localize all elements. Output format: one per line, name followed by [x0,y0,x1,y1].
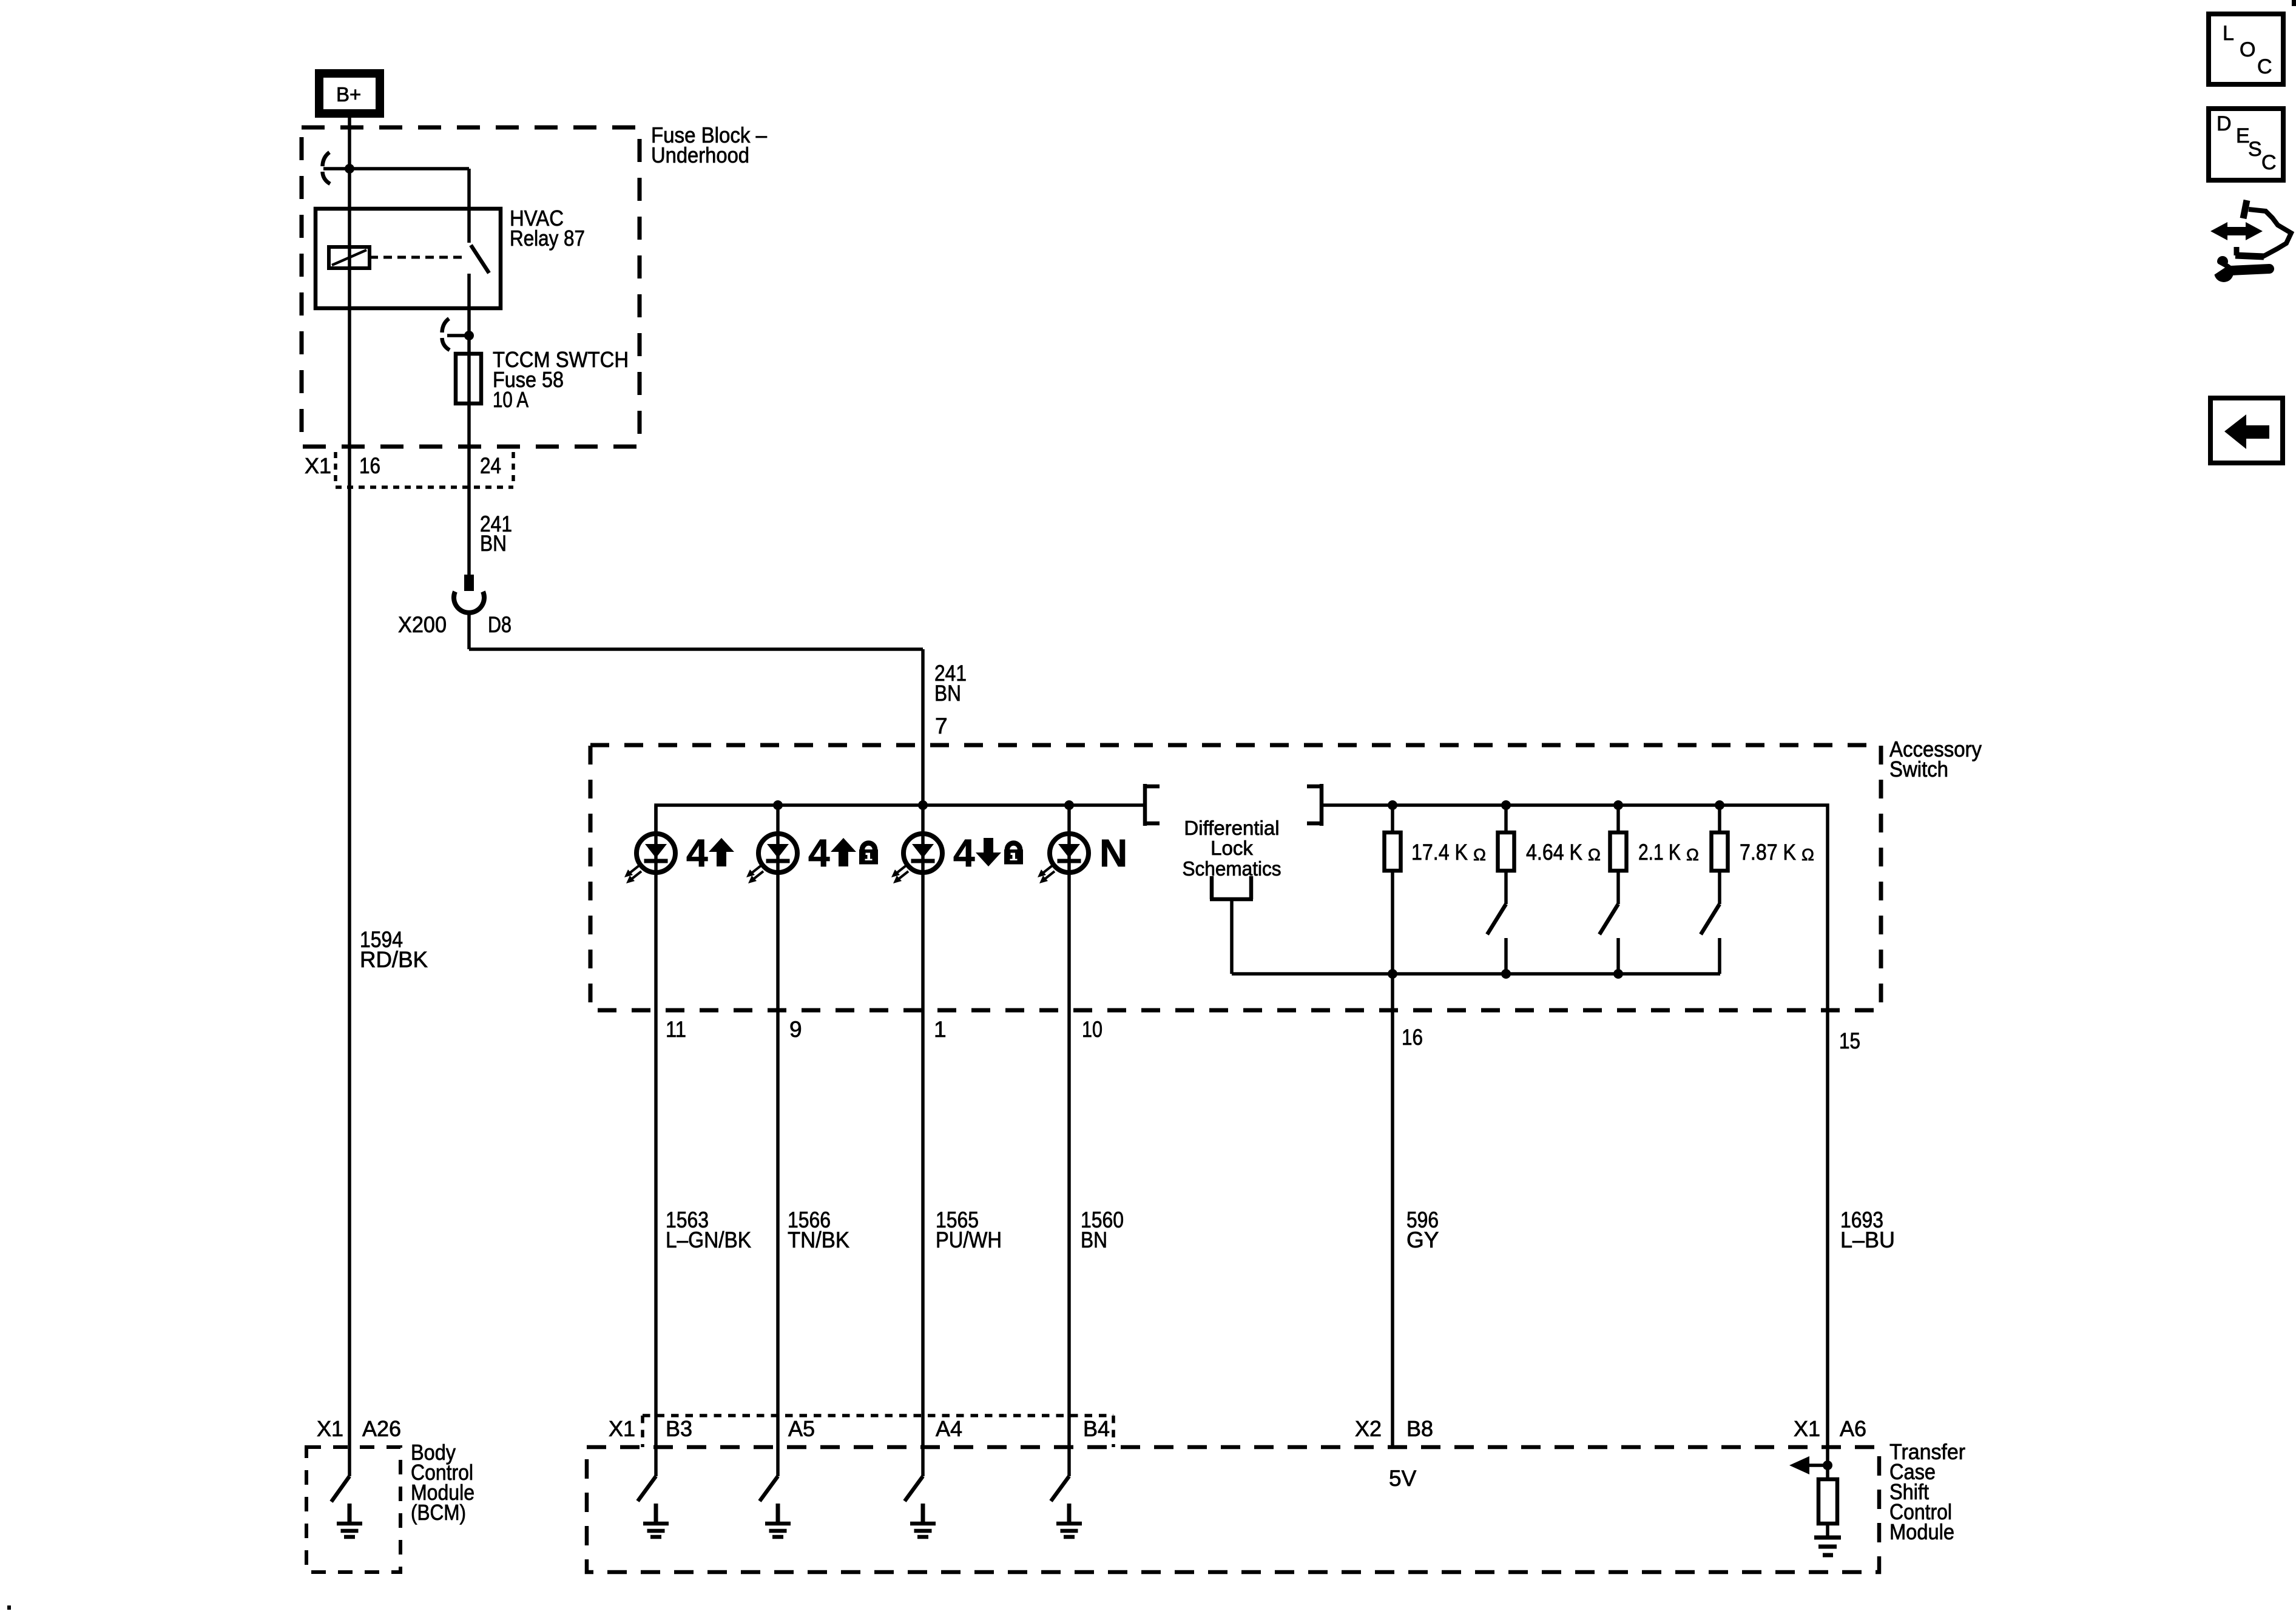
svg-text:11: 11 [666,1017,686,1042]
svg-text:4: 4 [953,831,975,875]
svg-text:X2: X2 [1355,1416,1382,1441]
svg-text:BN: BN [1081,1227,1107,1252]
svg-text:O: O [2240,38,2255,61]
svg-text:Schematics: Schematics [1183,857,1281,880]
svg-text:Ω: Ω [1801,845,1814,864]
svg-text:X1: X1 [1794,1416,1820,1441]
svg-text:7: 7 [935,714,948,738]
svg-text:B+: B+ [336,83,361,106]
svg-text:24: 24 [480,453,501,478]
svg-text:BN: BN [934,681,961,706]
svg-text:10: 10 [1082,1017,1102,1042]
svg-text:Lock: Lock [1210,837,1253,859]
svg-text:TN/BK: TN/BK [788,1227,849,1252]
svg-text:X200: X200 [398,612,447,637]
svg-text:L–GN/BK: L–GN/BK [666,1227,751,1252]
svg-text:2.1 K: 2.1 K [1638,840,1681,865]
svg-text:X1: X1 [609,1416,635,1441]
svg-text:D8: D8 [488,612,512,637]
svg-text:B4: B4 [1083,1416,1110,1441]
svg-text:L: L [2223,22,2234,45]
svg-text:17.4 K: 17.4 K [1411,840,1468,865]
svg-text:B3: B3 [666,1416,692,1441]
svg-text:BN: BN [480,531,507,556]
svg-text:Differential: Differential [1184,817,1279,839]
svg-text:7.87 K: 7.87 K [1740,840,1796,865]
svg-text:Underhood: Underhood [651,143,749,167]
svg-text:C: C [2261,151,2277,174]
svg-text:4: 4 [808,831,830,875]
svg-text:A26: A26 [362,1416,401,1441]
svg-text:(BCM): (BCM) [411,1500,466,1525]
svg-text:1: 1 [934,1017,947,1042]
svg-text:A6: A6 [1840,1416,1866,1441]
svg-text:S: S [2248,138,2262,161]
svg-text:9: 9 [789,1017,802,1042]
svg-text:16: 16 [1402,1025,1423,1050]
svg-text:A5: A5 [788,1416,815,1441]
svg-text:15: 15 [1839,1028,1860,1053]
svg-text:16: 16 [359,453,380,478]
svg-text:X1: X1 [305,453,331,478]
svg-text:N: N [1099,831,1127,875]
svg-text:5V: 5V [1389,1466,1417,1491]
svg-text:Switch: Switch [1889,757,1948,781]
svg-text:B8: B8 [1406,1416,1433,1441]
svg-text:D: D [2217,112,2232,135]
svg-text:PU/WH: PU/WH [936,1227,1002,1252]
svg-text:10 A: 10 A [493,387,528,412]
svg-text:Ω: Ω [1473,845,1486,864]
svg-text:A4: A4 [936,1416,962,1441]
svg-text:Module: Module [1889,1519,1954,1544]
svg-text:L–BU: L–BU [1840,1227,1895,1252]
svg-text:Relay 87: Relay 87 [510,226,585,251]
svg-text:4: 4 [686,831,708,875]
svg-text:GY: GY [1406,1227,1439,1252]
svg-text:Ω: Ω [1686,845,1699,864]
svg-text:Ω: Ω [1588,845,1601,864]
svg-text:4.64 K: 4.64 K [1526,840,1582,865]
svg-text:RD/BK: RD/BK [360,947,428,972]
svg-text:X1: X1 [317,1416,343,1441]
svg-text:C: C [2257,55,2272,78]
